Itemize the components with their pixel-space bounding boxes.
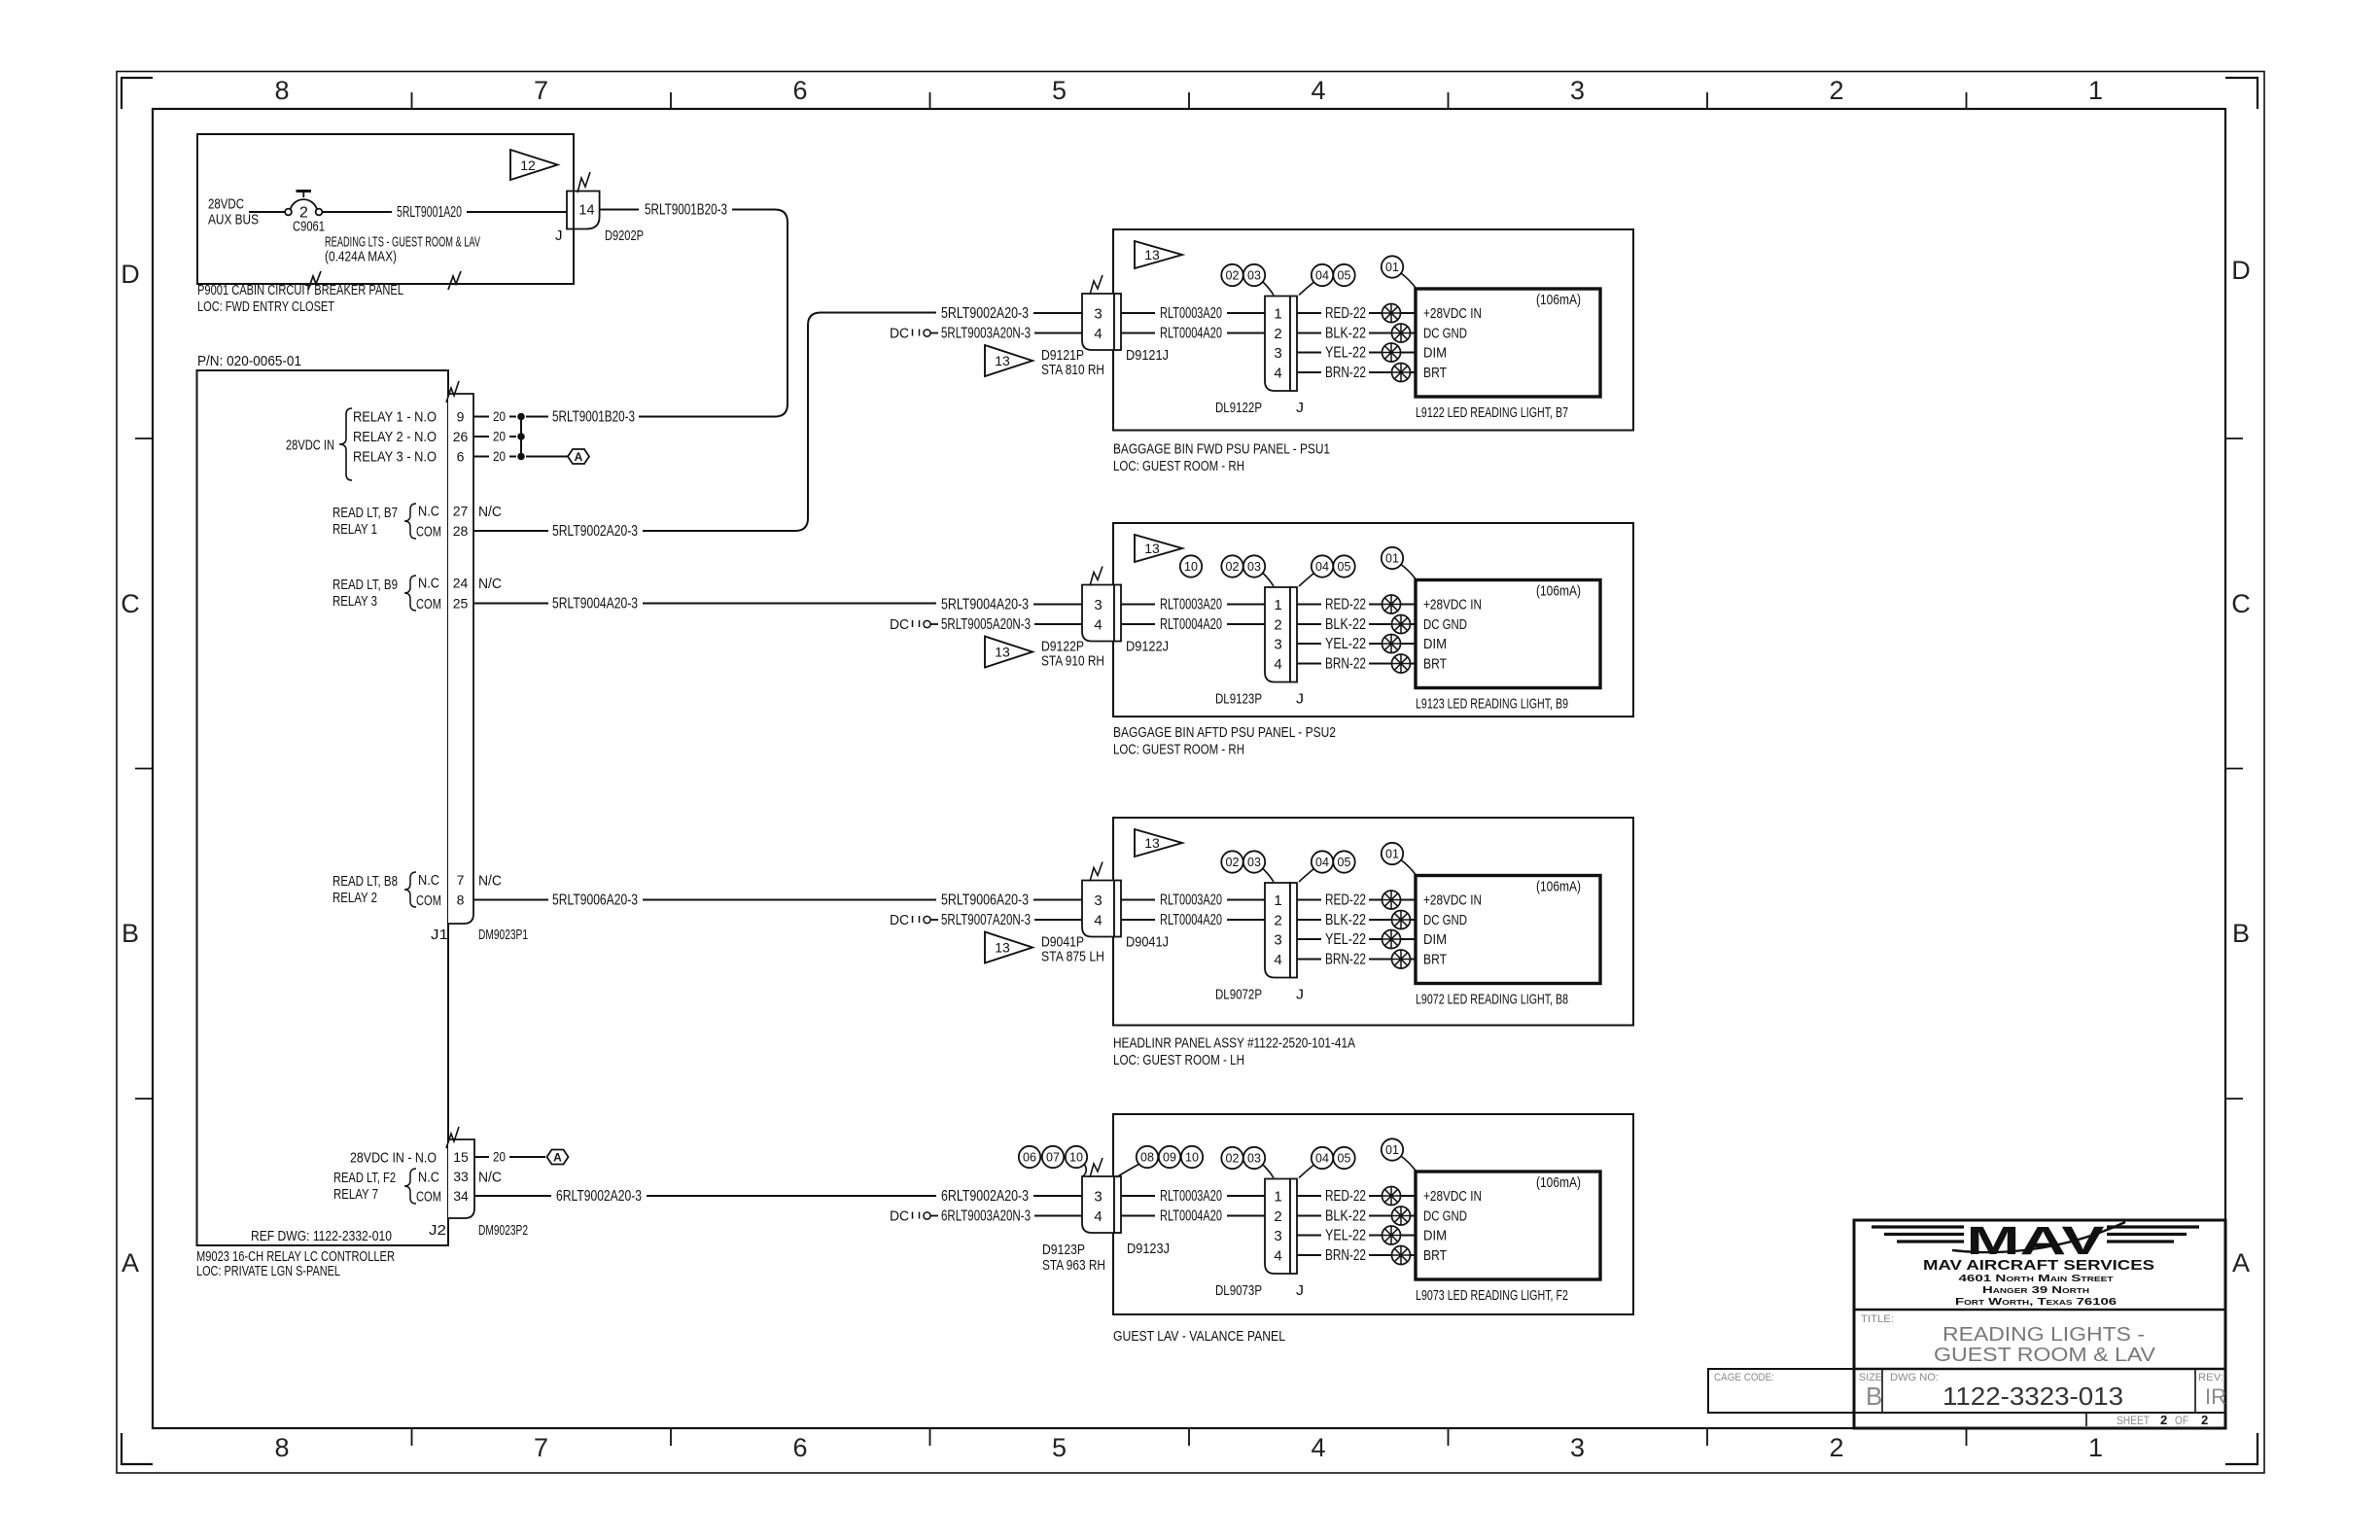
svg-text:YEL-22: YEL-22 — [1325, 636, 1366, 652]
wire vertical feed to PSU1 — [807, 326, 809, 519]
zone tick marks left — [135, 438, 153, 1099]
wire pin 34 with label 6RLT9002A20-3 — [474, 1188, 936, 1205]
svg-text:5: 5 — [1052, 1433, 1067, 1462]
svg-text:3: 3 — [1570, 76, 1585, 105]
wire YEL-22 with splice — [1297, 343, 1416, 362]
svg-text:04: 04 — [1315, 856, 1329, 869]
svg-text:BAGGAGE BIN FWD PSU PANEL -: BAGGAGE BIN FWD PSU PANEL - PSU1 — [1113, 441, 1330, 458]
svg-text:3: 3 — [1094, 597, 1102, 613]
wire BLK-22 with splice — [1297, 324, 1416, 342]
wire C9061 to connector D9202P, wire label 5RLT9001A20 — [323, 204, 568, 221]
wire YEL-22 with splice — [1297, 930, 1416, 949]
connector designator D9121P / STA 810 RH — [1041, 347, 1104, 378]
splice callout circle 01 — [1382, 256, 1416, 288]
svg-text:MAV AIRCRAFT SERVICES: MAV AIRCRAFT SERVICES — [1923, 1257, 2154, 1274]
svg-text:3: 3 — [1274, 932, 1281, 949]
svg-text:N/C: N/C — [478, 1170, 502, 1186]
svg-text:4: 4 — [1274, 952, 1281, 968]
title block divider under title — [1854, 1368, 2225, 1371]
corner mark top-right — [2225, 78, 2257, 109]
svg-text:05: 05 — [1338, 560, 1351, 574]
brace for 28VDC IN relay group — [339, 408, 352, 480]
svg-text:1: 1 — [2088, 76, 2103, 105]
svg-text:DC: DC — [890, 1208, 909, 1225]
svg-text:04: 04 — [1315, 1152, 1329, 1166]
svg-text:05: 05 — [1338, 856, 1351, 869]
corner mark bottom-right — [2225, 1433, 2257, 1464]
svg-text:P/N: 020-0065-01: P/N: 020-0065-01 — [197, 353, 301, 369]
svg-text:(0.424A MAX): (0.424A MAX) — [325, 249, 397, 265]
svg-text:GUEST LAV - VALANCE PANEL: GUEST LAV - VALANCE PANEL — [1113, 1328, 1285, 1345]
DC return symbol PSU1 — [890, 326, 938, 342]
svg-text:5RLT9004A20-3: 5RLT9004A20-3 — [941, 596, 1029, 612]
wire YEL-22 with splice — [1297, 1226, 1416, 1244]
svg-text:03: 03 — [1247, 856, 1261, 869]
splice callout circles 02 03 — [1221, 555, 1274, 586]
svg-text:10: 10 — [1184, 560, 1198, 574]
zone numbers top — [274, 76, 2103, 105]
flag 13 at D9122P — [985, 637, 1032, 668]
svg-text:READ LT, F2: READ LT, F2 — [333, 1170, 396, 1186]
breaker function label READING LTS - GUEST ROOM & LAV (0.424A MAX) — [325, 234, 480, 265]
zone tick marks top — [412, 92, 1967, 109]
cage code box — [1708, 1369, 1854, 1413]
svg-text:13: 13 — [1144, 835, 1160, 851]
svg-text:STA 910 RH: STA 910 RH — [1041, 653, 1104, 670]
svg-text:+28VDC IN: +28VDC IN — [1423, 892, 1482, 909]
svg-text:DC: DC — [890, 616, 909, 633]
svg-text:C: C — [2231, 589, 2251, 618]
svg-text:8: 8 — [457, 892, 465, 908]
svg-text:STA 875 LH: STA 875 LH — [1041, 949, 1104, 965]
svg-text:LOC: GUEST ROOM - LH: LOC: GUEST ROOM - LH — [1113, 1052, 1244, 1068]
wire RLT0004A20 — [1121, 912, 1265, 928]
svg-text:6: 6 — [792, 1433, 807, 1462]
svg-text:STA 963 RH: STA 963 RH — [1042, 1257, 1105, 1274]
svg-text:AUX BUS: AUX BUS — [208, 212, 259, 228]
svg-text:8: 8 — [274, 76, 289, 105]
svg-text:IR: IR — [2205, 1384, 2226, 1409]
title block divider size cell — [1881, 1369, 1883, 1413]
svg-text:RELAY 2 - N.O: RELAY 2 - N.O — [353, 429, 437, 445]
svg-text:15: 15 — [453, 1149, 469, 1165]
PSU1 PSU panel box — [1113, 229, 1633, 431]
svg-text:8: 8 — [274, 1433, 289, 1462]
junction dot pin 6 bus — [518, 453, 525, 460]
svg-text:DIM: DIM — [1423, 345, 1447, 362]
circuit breaker C9061 symbol — [285, 192, 322, 216]
svg-text:J2: J2 — [429, 1222, 446, 1239]
svg-text:YEL-22: YEL-22 — [1325, 1227, 1366, 1243]
svg-text:HEADLINR PANEL ASSY #1122-2520: HEADLINR PANEL ASSY #1122-2520-101-41A — [1113, 1035, 1355, 1052]
connector designator D9122P / STA 910 RH — [1041, 639, 1104, 670]
svg-text:5RLT9002A20-3: 5RLT9002A20-3 — [941, 305, 1029, 322]
connector J1 strip — [448, 394, 473, 924]
corner mark bottom-left — [122, 1433, 153, 1464]
svg-text:DC GND: DC GND — [1423, 616, 1467, 633]
svg-text:(106mA): (106mA) — [1536, 583, 1581, 600]
svg-text:COM: COM — [416, 892, 441, 909]
svg-text:BLK-22: BLK-22 — [1325, 325, 1366, 341]
svg-text:2: 2 — [1274, 617, 1281, 634]
svg-text:DIM: DIM — [1423, 931, 1447, 948]
MAV logo wings left — [1872, 1227, 1964, 1242]
svg-text:4601 North Main Street: 4601 North Main Street — [1959, 1273, 2115, 1284]
wire label 5RLT9007A20N-3 into HEADLINER — [941, 912, 1082, 928]
svg-text:L9123 LED READING LIGHT, B9: L9123 LED READING LIGHT, B9 — [1416, 696, 1568, 713]
svg-text:1: 1 — [1274, 306, 1281, 323]
splice callout circles 06 07 10 — [1019, 1146, 1087, 1176]
wire BRN-22 with splice — [1297, 654, 1416, 673]
connector DL9123P pins 1-4 — [1265, 587, 1297, 682]
flag 13 at D9121P — [985, 345, 1032, 376]
svg-text:6RLT9002A20-3: 6RLT9002A20-3 — [941, 1188, 1029, 1205]
svg-text:DC: DC — [890, 912, 909, 928]
svg-text:D9121J: D9121J — [1126, 347, 1169, 364]
svg-text:33: 33 — [453, 1169, 469, 1184]
svg-text:RELAY 7: RELAY 7 — [333, 1186, 378, 1203]
svg-text:BLK-22: BLK-22 — [1325, 616, 1366, 633]
svg-text:READ LT, B9: READ LT, B9 — [332, 577, 398, 593]
svg-text:34: 34 — [453, 1188, 469, 1204]
svg-text:D: D — [121, 260, 140, 289]
svg-text:03: 03 — [1247, 269, 1261, 283]
wire label 6RLT9003A20N-3 into GUEST LAV — [941, 1207, 1082, 1224]
svg-text:RLT0003A20: RLT0003A20 — [1160, 596, 1222, 612]
connector designator D9123P / STA 963 RH — [1042, 1242, 1105, 1274]
svg-text:+28VDC IN: +28VDC IN — [1423, 597, 1482, 613]
wire 5RLT9001B20-3 from D9202P with label — [600, 201, 787, 222]
svg-text:READ LT, B7: READ LT, B7 — [332, 505, 398, 521]
splice callout circle 01 — [1382, 843, 1416, 875]
title block outline — [1854, 1220, 2225, 1428]
svg-text:RED-22: RED-22 — [1325, 1188, 1366, 1205]
break squiggle on D9121P — [1090, 275, 1102, 295]
svg-text:A: A — [553, 1151, 562, 1165]
svg-text:5RLT9001B20-3: 5RLT9001B20-3 — [645, 201, 727, 218]
svg-text:3: 3 — [1094, 892, 1102, 909]
svg-text:13: 13 — [1144, 541, 1160, 556]
svg-text:DC: DC — [890, 326, 909, 342]
flag 12 — [510, 150, 558, 180]
wire BLK-22 with splice — [1297, 911, 1416, 929]
splice callout circles 02 03 — [1221, 264, 1274, 296]
svg-text:COM: COM — [416, 596, 441, 612]
svg-text:25: 25 — [453, 596, 469, 612]
splice callout circles 04 05 — [1299, 555, 1355, 586]
svg-text:BRN-22: BRN-22 — [1325, 951, 1366, 967]
corner mark top-left — [122, 78, 153, 109]
svg-text:RELAY 3: RELAY 3 — [332, 593, 377, 610]
svg-text:5RLT9007A20N-3: 5RLT9007A20N-3 — [941, 912, 1031, 928]
svg-text:4: 4 — [1311, 76, 1325, 105]
connector D9121P/D9121J pins 3-4 — [1082, 294, 1121, 350]
wire label 5RLT9002A20-3 into PSU1 — [941, 305, 1082, 322]
svg-text:3: 3 — [1094, 306, 1102, 323]
wire YEL-22 with splice — [1297, 635, 1416, 653]
svg-text:DL9123P: DL9123P — [1215, 691, 1262, 708]
splice callout circle 10 — [1180, 555, 1202, 577]
zone numbers bottom — [274, 1433, 2103, 1462]
svg-text:5RLT9004A20-3: 5RLT9004A20-3 — [552, 595, 638, 612]
svg-text:(106mA): (106mA) — [1536, 292, 1581, 308]
svg-text:RELAY 1 - N.O: RELAY 1 - N.O — [353, 409, 437, 426]
svg-text:10: 10 — [1069, 1151, 1083, 1165]
svg-text:2: 2 — [2201, 1413, 2208, 1427]
svg-text:7: 7 — [534, 76, 548, 105]
svg-text:06: 06 — [1023, 1151, 1036, 1165]
svg-text:05: 05 — [1338, 269, 1351, 283]
svg-text:2: 2 — [2160, 1413, 2167, 1427]
svg-text:D9123P: D9123P — [1042, 1242, 1085, 1258]
svg-text:LOC: GUEST ROOM - RH: LOC: GUEST ROOM - RH — [1113, 458, 1244, 474]
svg-text:01: 01 — [1385, 848, 1399, 861]
splice callout circles 08 09 10 — [1116, 1146, 1203, 1177]
svg-text:1122-3323-013: 1122-3323-013 — [1942, 1382, 2123, 1411]
wire pin 25 with label 5RLT9004A20-3 — [473, 595, 936, 612]
svg-text:YEL-22: YEL-22 — [1325, 344, 1366, 361]
svg-text:08: 08 — [1140, 1151, 1154, 1165]
MAV logo wings right — [2107, 1227, 2199, 1242]
bus vertical wire joining pins 9 26 6 — [520, 417, 522, 457]
break squiggle on D9123P — [1090, 1158, 1102, 1177]
svg-text:2: 2 — [1274, 326, 1281, 342]
svg-text:DIM: DIM — [1423, 1228, 1447, 1244]
title block divider under address — [1854, 1309, 2225, 1312]
wire pin 26 gauge 20 segment — [473, 430, 516, 444]
wire label 6RLT9002A20-3 into GUEST LAV — [941, 1188, 1082, 1205]
svg-text:20: 20 — [493, 430, 506, 444]
wire pin 28 with label 5RLT9002A20-3 — [473, 518, 808, 540]
svg-text:+28VDC IN: +28VDC IN — [1423, 305, 1482, 322]
off-sheet flag A (pin 6) — [568, 449, 589, 464]
svg-text:4: 4 — [1274, 656, 1281, 673]
connector DL9073P pins 1-4 — [1265, 1179, 1297, 1275]
svg-text:RLT0003A20: RLT0003A20 — [1160, 305, 1222, 322]
brace relay 1 contacts — [404, 504, 416, 539]
splice callout circles 02 03 — [1221, 1147, 1274, 1178]
svg-text:Fort Worth, Texas 76106: Fort Worth, Texas 76106 — [1955, 1296, 2117, 1308]
LED reading light box L9072 LED READING LIGHT, B8 — [1416, 876, 1600, 984]
wire pin 6 gauge 20 segment — [473, 449, 568, 464]
brace relay 2 contacts — [404, 872, 416, 907]
M9023 relay controller box — [197, 370, 449, 1245]
svg-text:C9061: C9061 — [293, 219, 325, 235]
svg-text:P9001 CABIN CIRCUIT BREAKER PA: P9001 CABIN CIRCUIT BREAKER PANEL — [197, 282, 403, 298]
wire BLK-22 with splice — [1297, 1207, 1416, 1225]
brace relay 7 contacts — [404, 1169, 416, 1204]
wire vertical segment 5RLT9001B20-3 — [787, 223, 788, 404]
svg-text:COM: COM — [416, 1189, 441, 1206]
svg-text:REV:: REV: — [2198, 1372, 2223, 1383]
wire RLT0003A20 — [1121, 892, 1265, 908]
svg-text:13: 13 — [995, 940, 1010, 956]
svg-text:D9123J: D9123J — [1127, 1241, 1170, 1257]
svg-text:4: 4 — [1094, 617, 1102, 634]
svg-text:03: 03 — [1247, 560, 1261, 574]
wire from 28VDC AUX BUS to breaker C9061 — [249, 211, 285, 213]
svg-text:5RLT9006A20-3: 5RLT9006A20-3 — [941, 892, 1029, 908]
svg-text:7: 7 — [534, 1433, 548, 1462]
wire corner into PSU1 row — [808, 313, 936, 326]
svg-text:L9073 LED READING LIGHT, F2: L9073 LED READING LIGHT, F2 — [1416, 1287, 1568, 1304]
connector DL9122P pins 1-4 — [1265, 297, 1297, 392]
svg-text:GUEST ROOM & LAV: GUEST ROOM & LAV — [1934, 1345, 2156, 1366]
svg-text:B: B — [1866, 1382, 1882, 1411]
svg-text:04: 04 — [1315, 560, 1329, 574]
svg-text:LOC: GUEST ROOM - RH: LOC: GUEST ROOM - RH — [1113, 742, 1244, 758]
MAV logo swoosh — [1952, 1222, 2125, 1252]
wire RLT0003A20 — [1121, 596, 1265, 612]
break squiggle on connector D9202P — [577, 172, 590, 192]
svg-text:BLK-22: BLK-22 — [1325, 912, 1366, 928]
panel break squiggle on P9001 bottom edge (right) — [448, 271, 461, 290]
wire BRN-22 with splice — [1297, 364, 1416, 382]
wire RED-22 with splice — [1297, 891, 1416, 909]
svg-text:RED-22: RED-22 — [1325, 892, 1366, 908]
flag 13 at D9041P — [985, 932, 1032, 963]
svg-text:26: 26 — [453, 429, 469, 444]
wire pin 15 gauge 20 to flag A — [474, 1150, 545, 1165]
splice callout circle 01 — [1382, 1138, 1416, 1171]
svg-text:07: 07 — [1046, 1151, 1060, 1165]
svg-text:LOC: FWD ENTRY CLOSET: LOC: FWD ENTRY CLOSET — [197, 298, 334, 315]
svg-text:DC GND: DC GND — [1423, 326, 1467, 342]
svg-text:B: B — [122, 919, 139, 948]
svg-text:BRN-22: BRN-22 — [1325, 1247, 1366, 1264]
splice callout circles 04 05 — [1299, 851, 1355, 882]
svg-text:J: J — [1296, 987, 1304, 1003]
zone tick marks right — [2225, 438, 2243, 1099]
svg-text:RED-22: RED-22 — [1325, 305, 1366, 322]
svg-text:5RLT9002A20-3: 5RLT9002A20-3 — [552, 523, 638, 540]
svg-text:4: 4 — [1274, 1248, 1281, 1265]
svg-text:+28VDC IN: +28VDC IN — [1423, 1188, 1482, 1205]
svg-text:RLT0003A20: RLT0003A20 — [1160, 1188, 1222, 1205]
svg-text:A: A — [2232, 1248, 2250, 1277]
DC return symbol HEADLINER — [890, 912, 938, 928]
svg-text:12: 12 — [520, 157, 536, 173]
svg-text:20: 20 — [493, 409, 506, 424]
svg-text:6: 6 — [457, 449, 465, 465]
svg-text:RLT0003A20: RLT0003A20 — [1160, 892, 1222, 908]
flag 13 inside PSU1 — [1135, 241, 1182, 268]
svg-text:09: 09 — [1163, 1151, 1176, 1165]
svg-text:A: A — [122, 1248, 139, 1277]
wire RLT0004A20 — [1121, 616, 1265, 633]
svg-text:J1: J1 — [431, 927, 448, 943]
svg-text:24: 24 — [453, 576, 469, 591]
svg-text:J: J — [1296, 400, 1304, 416]
wire BRN-22 with splice — [1297, 950, 1416, 968]
title block divider rev cell — [2194, 1369, 2196, 1413]
wire pin 8 with label 5RLT9006A20-3 — [473, 892, 936, 908]
svg-text:13: 13 — [995, 645, 1010, 660]
svg-text:2: 2 — [1274, 1208, 1281, 1225]
wire label 5RLT9003A20N-3 into PSU1 — [941, 325, 1082, 341]
svg-text:02: 02 — [1226, 269, 1240, 283]
title block divider above sheet row — [1854, 1412, 2225, 1414]
svg-text:20: 20 — [493, 449, 506, 464]
svg-text:5RLT9001B20-3: 5RLT9001B20-3 — [552, 408, 635, 425]
svg-text:REF DWG: 1122-2332-010: REF DWG: 1122-2332-010 — [251, 1228, 392, 1244]
svg-text:1: 1 — [1274, 1189, 1281, 1206]
svg-text:DL9122P: DL9122P — [1215, 400, 1262, 416]
svg-text:BRT: BRT — [1423, 1247, 1447, 1264]
wire BRN-22 with splice — [1297, 1246, 1416, 1265]
junction dot pin 9 bus — [518, 413, 525, 420]
splice callout circles 04 05 — [1299, 264, 1355, 296]
svg-text:D9202P: D9202P — [605, 227, 644, 244]
svg-text:DL9073P: DL9073P — [1215, 1282, 1262, 1299]
connector D9123P/D9123J pins 3-4 — [1082, 1176, 1121, 1233]
svg-text:BRN-22: BRN-22 — [1325, 365, 1366, 381]
svg-text:28: 28 — [453, 523, 469, 539]
svg-text:C: C — [121, 589, 140, 618]
svg-text:READ LT, B8: READ LT, B8 — [332, 873, 398, 890]
svg-text:B: B — [2232, 919, 2250, 948]
svg-text:(106mA): (106mA) — [1536, 879, 1581, 895]
svg-text:L9072 LED READING LIGHT, B8: L9072 LED READING LIGHT, B8 — [1416, 992, 1568, 1008]
wire label 5RLT9005A20N-3 into PSU2 — [941, 616, 1082, 633]
svg-text:10: 10 — [1185, 1151, 1199, 1165]
svg-text:N/C: N/C — [478, 873, 502, 890]
svg-text:(106mA): (106mA) — [1536, 1174, 1581, 1191]
svg-text:DM9023P2: DM9023P2 — [478, 1222, 528, 1239]
wire RLT0004A20 — [1121, 1207, 1265, 1224]
svg-text:4: 4 — [1274, 366, 1281, 382]
splice callout circle 01 — [1382, 547, 1416, 579]
svg-text:4: 4 — [1311, 1433, 1325, 1462]
wire RED-22 with splice — [1297, 1187, 1416, 1206]
connector D9122P/D9122J pins 3-4 — [1082, 585, 1121, 642]
connector J2 strip — [448, 1139, 474, 1218]
wire RLT0003A20 — [1121, 305, 1265, 322]
zone letters right — [2231, 256, 2251, 1277]
wire pin 9 gauge 20 segment — [473, 409, 548, 424]
connector DL9072P pins 1-4 — [1265, 883, 1297, 978]
svg-text:BAGGAGE BIN AFTD PSU PANEL -: BAGGAGE BIN AFTD PSU PANEL - PSU2 — [1113, 724, 1336, 741]
svg-text:01: 01 — [1385, 1143, 1399, 1157]
break squiggle on J1 top — [446, 381, 459, 402]
wire RED-22 with splice — [1297, 304, 1416, 323]
svg-text:DM9023P1: DM9023P1 — [478, 927, 528, 943]
svg-text:13: 13 — [1144, 247, 1160, 262]
svg-text:6RLT9002A20-3: 6RLT9002A20-3 — [556, 1188, 642, 1205]
label READ LT, F2 / RELAY 7 — [333, 1170, 396, 1203]
svg-text:28VDC: 28VDC — [208, 196, 244, 213]
svg-text:SHEET: SHEET — [2117, 1414, 2151, 1427]
svg-text:RELAY 1: RELAY 1 — [332, 521, 377, 538]
PSU2 PSU panel box — [1113, 523, 1633, 717]
GUEST LAV PSU panel box — [1113, 1114, 1633, 1314]
relay box caption M9023 — [196, 1248, 395, 1279]
svg-text:CAGE CODE:: CAGE CODE: — [1714, 1372, 1774, 1383]
title block divider sheet cell — [2085, 1413, 2087, 1426]
svg-text:5RLT9005A20N-3: 5RLT9005A20N-3 — [941, 616, 1031, 633]
flag 13 inside PSU2 — [1135, 535, 1182, 562]
svg-text:D: D — [2231, 256, 2251, 285]
svg-text:4: 4 — [1094, 326, 1102, 342]
svg-text:BRN-22: BRN-22 — [1325, 655, 1366, 672]
junction dot pin 26 bus — [518, 434, 525, 440]
svg-text:5RLT9001A20: 5RLT9001A20 — [397, 204, 462, 221]
svg-text:27: 27 — [453, 504, 469, 519]
svg-text:9: 9 — [457, 409, 465, 425]
svg-text:3: 3 — [1274, 345, 1281, 362]
wire RLT0003A20 — [1121, 1188, 1265, 1205]
svg-text:LOC: PRIVATE LGN S-PANEL: LOC: PRIVATE LGN S-PANEL — [196, 1263, 340, 1279]
